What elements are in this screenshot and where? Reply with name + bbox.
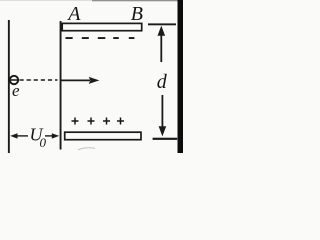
d dimension down arrowhead [159, 126, 167, 136]
velocity arrow (solid, into capacitor) [62, 79, 91, 81]
d dimension upper shaft [160, 34, 162, 63]
d dimension up arrowhead [158, 26, 166, 36]
capacitor plate top (negative) [62, 23, 142, 30]
electron charge symbol (circle with minus) [10, 76, 18, 84]
d dimension top tick [148, 23, 176, 25]
svg-text:B: B [131, 3, 143, 25]
svg-text:e: e [12, 81, 20, 100]
capacitor plate bottom (positive) [65, 132, 141, 140]
minus signs under top plate [66, 37, 73, 39]
d dimension bottom tick [153, 138, 178, 140]
U0 dimension right shaft [45, 135, 53, 137]
svg-text:d: d [157, 71, 168, 93]
U0 dimension left shaft [17, 135, 29, 137]
U0 dimension right arrowhead [52, 133, 59, 138]
plus signs above bottom plate [72, 118, 125, 125]
faint scan scratch [78, 148, 95, 150]
d dimension lower shaft [162, 95, 164, 128]
U0 dimension left arrowhead [10, 133, 17, 138]
wire: dashed trajectory line [20, 79, 58, 81]
top border line (faint, darker at right) [0, 0, 92, 1]
wire: middle vertical line (capacitor entrance edge) [60, 21, 62, 150]
wire: left vertical line (electron source wall) [8, 20, 10, 153]
minus bar inside electron [10, 79, 19, 81]
svg-text:0: 0 [40, 135, 47, 150]
svg-text:A: A [66, 3, 81, 25]
right page border bar [178, 0, 184, 153]
